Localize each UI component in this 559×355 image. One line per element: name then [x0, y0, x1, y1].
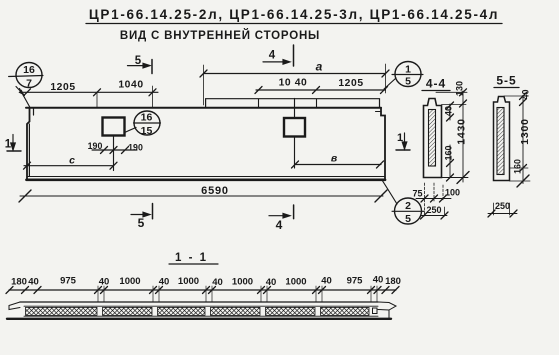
svg-text:40: 40 [444, 106, 454, 116]
svg-text:190: 190 [88, 141, 103, 151]
svg-text:1 - 1: 1 - 1 [175, 252, 208, 264]
svg-text:1205: 1205 [50, 82, 75, 93]
svg-text:250: 250 [495, 201, 510, 211]
svg-text:40: 40 [212, 277, 223, 288]
svg-text:a: a [316, 60, 323, 74]
svg-text:10 40: 10 40 [279, 78, 308, 89]
svg-text:ЦР1-66.14.25-2л, ЦР1-66.14.25-: ЦР1-66.14.25-2л, ЦР1-66.14.25-3л, ЦР1-66… [89, 7, 499, 22]
svg-text:5: 5 [405, 76, 411, 88]
svg-text:1300: 1300 [519, 118, 531, 145]
svg-text:7: 7 [26, 78, 32, 90]
svg-text:100: 100 [445, 188, 460, 198]
svg-text:4: 4 [276, 218, 283, 232]
svg-text:5: 5 [405, 213, 411, 225]
svg-text:4: 4 [269, 50, 276, 62]
svg-text:1000: 1000 [119, 276, 140, 287]
svg-text:190: 190 [128, 143, 143, 153]
svg-text:15: 15 [141, 125, 153, 137]
svg-text:40: 40 [28, 277, 39, 288]
svg-text:с: с [69, 155, 75, 167]
svg-text:250: 250 [426, 205, 441, 215]
svg-text:1040: 1040 [118, 80, 143, 91]
svg-text:40: 40 [373, 275, 384, 286]
svg-text:5: 5 [135, 55, 142, 67]
svg-text:1: 1 [405, 64, 411, 76]
svg-text:180: 180 [11, 277, 27, 288]
svg-text:5: 5 [138, 216, 145, 230]
svg-text:5-5: 5-5 [496, 74, 516, 88]
svg-text:1000: 1000 [178, 276, 199, 287]
svg-text:40: 40 [321, 276, 332, 287]
svg-text:975: 975 [60, 276, 77, 287]
svg-text:40: 40 [266, 277, 277, 288]
svg-text:1: 1 [5, 139, 12, 151]
svg-text:ВИД С ВНУТРЕННЕЙ СТОРОНЫ: ВИД С ВНУТРЕННЕЙ СТОРОНЫ [120, 29, 320, 42]
svg-text:180: 180 [385, 276, 401, 287]
svg-text:1: 1 [397, 132, 403, 144]
svg-text:75: 75 [412, 189, 422, 199]
svg-text:130: 130 [455, 81, 465, 96]
svg-text:40: 40 [99, 277, 110, 288]
svg-text:40: 40 [521, 89, 531, 99]
svg-text:в: в [331, 153, 338, 165]
svg-text:1000: 1000 [285, 277, 306, 288]
svg-text:40: 40 [159, 277, 170, 288]
svg-text:2: 2 [405, 200, 411, 212]
svg-text:16: 16 [23, 64, 35, 76]
svg-text:4-4: 4-4 [426, 77, 446, 91]
svg-text:6590: 6590 [201, 185, 229, 197]
svg-text:975: 975 [347, 276, 364, 287]
svg-text:1430: 1430 [456, 118, 468, 145]
svg-text:1205: 1205 [338, 78, 363, 89]
svg-text:160: 160 [444, 145, 454, 160]
svg-text:160: 160 [513, 159, 523, 174]
svg-text:16: 16 [141, 112, 153, 124]
svg-text:1000: 1000 [232, 277, 253, 288]
